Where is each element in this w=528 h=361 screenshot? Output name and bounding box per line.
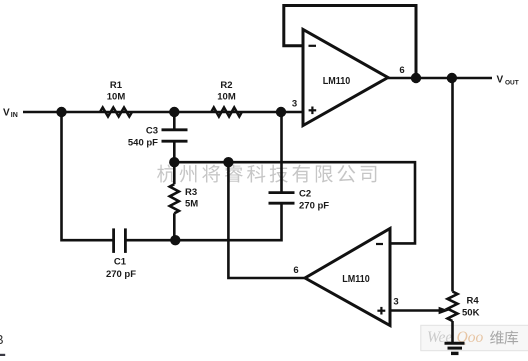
svg-text:6: 6 xyxy=(293,265,298,276)
svg-text:C2: C2 xyxy=(299,189,311,200)
watermark: company name xyxy=(157,164,175,182)
node: op-amp2 output mid-rail junction xyxy=(223,157,233,167)
svg-text:540 pF: 540 pF xyxy=(128,138,158,149)
svg-text:R4: R4 xyxy=(467,296,480,307)
wire: op-amp2 + input to R4 wiper xyxy=(390,309,439,312)
op-amp U2 LM110 (bottom, pointing left) xyxy=(305,229,390,326)
svg-text:OUT: OUT xyxy=(505,80,519,87)
svg-text:3: 3 xyxy=(393,297,398,308)
op-amp2 minus symbol xyxy=(376,243,383,245)
op-amp1 plus symbol xyxy=(309,109,317,111)
svg-text:LM110: LM110 xyxy=(342,274,370,285)
svg-text:R3: R3 xyxy=(185,187,197,198)
watermark: weiku logo box xyxy=(421,325,528,350)
resistor R2 10M xyxy=(211,108,242,117)
svg-text:10M: 10M xyxy=(217,92,236,103)
node: R1/R2/C3 junction xyxy=(169,107,179,117)
wire: R3 top lead xyxy=(173,162,176,184)
node: output/R4 junction xyxy=(447,73,457,83)
wire: R3 bottom lead xyxy=(173,213,176,240)
wire: R4 bottom lead to ground xyxy=(451,321,454,343)
svg-text:C1: C1 xyxy=(114,257,127,268)
svg-text:50K: 50K xyxy=(462,308,480,319)
watermark: weiku CJK xyxy=(490,331,504,345)
svg-text:6: 6 xyxy=(399,65,404,76)
wire: R4 top lead from output rail xyxy=(451,78,454,292)
node: R3/C1/C2 junction xyxy=(170,235,180,245)
ground symbol xyxy=(445,342,465,345)
capacitor C2 270pF xyxy=(269,191,295,194)
capacitor C3 540pF xyxy=(162,128,188,131)
wire: node B down to C3 top plate xyxy=(173,112,176,130)
svg-text:5M: 5M xyxy=(185,199,198,210)
svg-text:V: V xyxy=(3,107,10,118)
svg-text:R2: R2 xyxy=(220,80,232,91)
svg-text:IN: IN xyxy=(11,112,18,119)
svg-text:10M: 10M xyxy=(107,92,126,103)
svg-text:LM110: LM110 xyxy=(323,76,351,87)
resistor R3 5M xyxy=(170,184,179,213)
wire: op-amp1 output rail to Vout xyxy=(388,77,492,80)
svg-text:B: B xyxy=(0,333,4,347)
capacitor C1 270pF xyxy=(112,228,115,253)
wire: node 3 down to C2 top plate xyxy=(280,112,283,193)
op-amp2 plus symbol xyxy=(377,310,385,312)
node 3: op-amp1 + input junction xyxy=(276,107,286,117)
wire: mid rail to op-amp2 minus input xyxy=(174,162,415,243)
svg-text:R1: R1 xyxy=(110,80,123,91)
svg-text:270 pF: 270 pF xyxy=(299,201,329,212)
wire: op-amp2 output up to mid rail xyxy=(228,162,305,278)
R4 wiper arrow xyxy=(439,307,449,314)
wire: main input rail Vin to op-amp1 + input xyxy=(23,111,303,114)
svg-text:270 pF: 270 pF xyxy=(106,269,136,280)
svg-text:3: 3 xyxy=(292,98,297,109)
wire: left branch down from Vin node through C1 xyxy=(62,112,114,240)
node: Vin junction xyxy=(56,107,66,117)
node: output/feedback junction xyxy=(411,73,421,83)
potentiometer R4 50K xyxy=(448,292,458,322)
op-amp1 minus symbol xyxy=(309,45,317,47)
svg-text:V: V xyxy=(497,75,504,86)
resistor R1 10M xyxy=(100,108,132,117)
wire: feedback loop op-amp1 output to minus input xyxy=(284,6,416,79)
op-amp U1 LM110 (top buffer) xyxy=(303,30,388,126)
wire: C3 bottom plate to mid rail xyxy=(173,141,176,162)
wire: C1 right plate to C2 bottom corner xyxy=(125,203,281,240)
node: C3/R3 mid-rail junction xyxy=(169,157,179,167)
svg-text:C3: C3 xyxy=(146,126,158,137)
